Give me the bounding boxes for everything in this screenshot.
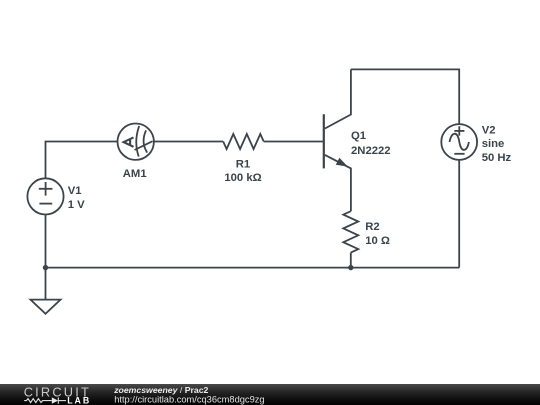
wire: V1 top to ammeter bbox=[46, 142, 118, 179]
svg-text:10 Ω: 10 Ω bbox=[365, 235, 390, 247]
wire: R2 bottom bbox=[350, 253, 352, 268]
svg-text:V1: V1 bbox=[68, 185, 82, 197]
node A (junction dot) bbox=[43, 265, 48, 270]
ground bbox=[31, 300, 61, 314]
resistor R2 bbox=[343, 211, 358, 252]
svg-text:Q1: Q1 bbox=[351, 130, 366, 142]
svg-text:sine: sine bbox=[482, 138, 505, 150]
wire: R1 to Q1 base bbox=[264, 141, 323, 143]
transistor Q1 bbox=[324, 69, 351, 211]
wire: bottom rail bbox=[46, 267, 460, 269]
logo diode bbox=[57, 397, 59, 403]
node B (junction dot) bbox=[348, 265, 353, 270]
ammeter AM1 bbox=[118, 124, 154, 160]
svg-text:100 kΩ: 100 kΩ bbox=[224, 172, 261, 184]
svg-text:http://circuitlab.com/cq36cm8d: http://circuitlab.com/cq36cm8dgc9zg bbox=[114, 394, 264, 404]
wire: V2 bottom bbox=[458, 160, 460, 268]
svg-text:R1: R1 bbox=[236, 159, 250, 171]
resistor R1 bbox=[223, 134, 264, 149]
svg-text:2N2222: 2N2222 bbox=[351, 145, 391, 157]
footer bar bbox=[0, 384, 540, 405]
source V1 bbox=[27, 178, 63, 214]
wire: V1 bottom to ground bbox=[45, 215, 47, 300]
svg-text:V2: V2 bbox=[482, 124, 496, 136]
svg-text:AM1: AM1 bbox=[123, 168, 147, 180]
svg-text:LAB: LAB bbox=[67, 395, 91, 405]
wire: top rail bbox=[351, 69, 459, 124]
svg-text:1 V: 1 V bbox=[68, 199, 85, 211]
logo resistor zigzag bbox=[24, 397, 66, 403]
label A of ammeter bbox=[124, 137, 134, 146]
source V2 bbox=[441, 124, 477, 160]
svg-text:50 Hz: 50 Hz bbox=[482, 152, 512, 164]
svg-text:R2: R2 bbox=[365, 221, 379, 233]
wire: ammeter to R1 bbox=[154, 141, 223, 143]
